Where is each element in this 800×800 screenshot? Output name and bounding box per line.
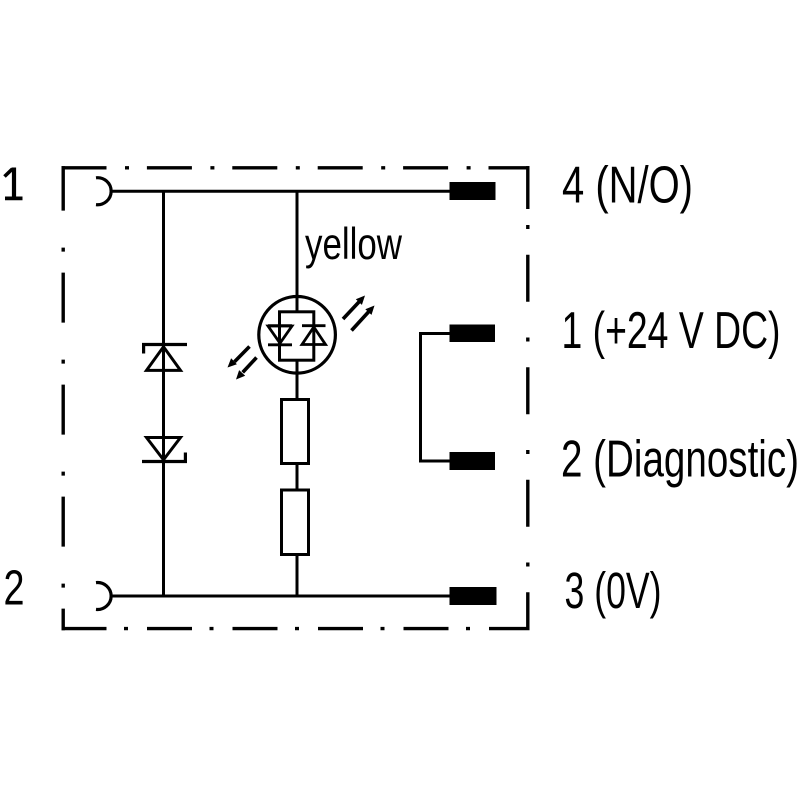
svg-text:1 (+24 V DC): 1 (+24 V DC) xyxy=(562,302,781,360)
svg-text:4 (N/O): 4 (N/O) xyxy=(562,157,693,215)
svg-text:yellow: yellow xyxy=(305,220,403,269)
svg-text:3 (0V): 3 (0V) xyxy=(565,562,662,619)
svg-text:2 (Diagnostic): 2 (Diagnostic) xyxy=(561,431,799,489)
svg-text:2: 2 xyxy=(4,562,25,616)
